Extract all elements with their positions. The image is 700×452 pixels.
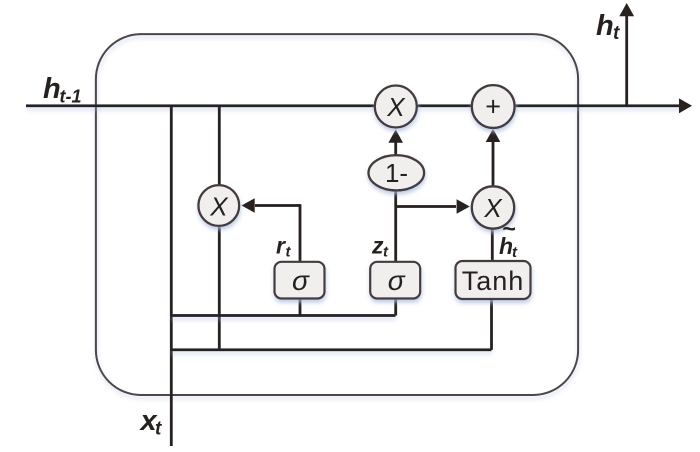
svg-text:X: X [209,192,229,222]
svg-text:~: ~ [502,216,515,242]
svg-text:Tanh: Tanh [462,266,525,296]
label r_t [276,233,292,261]
svg-text:r: r [276,233,286,259]
sigma box z_t [370,262,420,299]
arrowhead h_t up [619,3,634,16]
wire X3 up into plus circle [492,141,495,187]
arrowhead into X2 [388,130,403,143]
svg-text:h: h [43,73,61,105]
multiplier X3 circle [472,186,514,228]
multiplier X2 circle (top) [375,86,417,128]
wire bottom bus 1 (to sigma gates) [170,314,396,317]
svg-text:t: t [512,244,518,261]
label h~_t [499,216,518,262]
svg-text:σ: σ [388,265,406,296]
arrowhead into X3 [457,199,470,214]
svg-text:h: h [596,10,614,42]
wire sigma z_t bottom stub [394,299,397,316]
sigma box r_t [275,262,325,299]
svg-text:σ: σ [292,265,310,296]
wire x_t vertical input [170,106,173,446]
wire Tanh bottom stub [490,299,493,350]
arrowhead output right [679,98,692,113]
svg-text:+: + [485,92,501,122]
wire from r_t sigma output up and left into X1 [255,204,301,262]
svg-text:t-1: t-1 [60,87,82,107]
svg-text:t: t [613,23,620,44]
arrowhead into plus [486,129,501,142]
svg-text:X: X [483,193,503,223]
multiplier X1 circle [198,185,239,226]
Tanh box [456,261,531,299]
label h_t-1 [43,73,82,107]
wire sigma r_t bottom stub [299,299,302,316]
wire from h line down through X1 to bottom bus [218,106,221,350]
wire bottom bus 2 (to Tanh) [170,348,492,351]
svg-text:1-: 1- [385,158,408,188]
wire h_t-1 main horizontal line [26,104,681,107]
wire horizontal branch into X3 [396,205,456,208]
wire X3 down to Tanh [491,228,494,262]
1- ellipse [369,155,425,190]
svg-text:t: t [383,244,389,261]
label h_t [596,10,620,44]
adder plus circle [472,85,515,128]
svg-text:X: X [386,92,406,122]
arrowhead into X1 [242,198,255,213]
label x_t [139,405,163,440]
wire 1- ellipse up into X2 [394,141,397,156]
wire z_t branch vertical (ellipse to sigma) [394,190,397,262]
svg-text:t: t [155,419,162,440]
svg-text:t: t [286,244,292,261]
wire h_t vertical output [625,15,628,106]
label z_t [371,233,389,261]
cell body rounded rectangle [96,34,578,395]
